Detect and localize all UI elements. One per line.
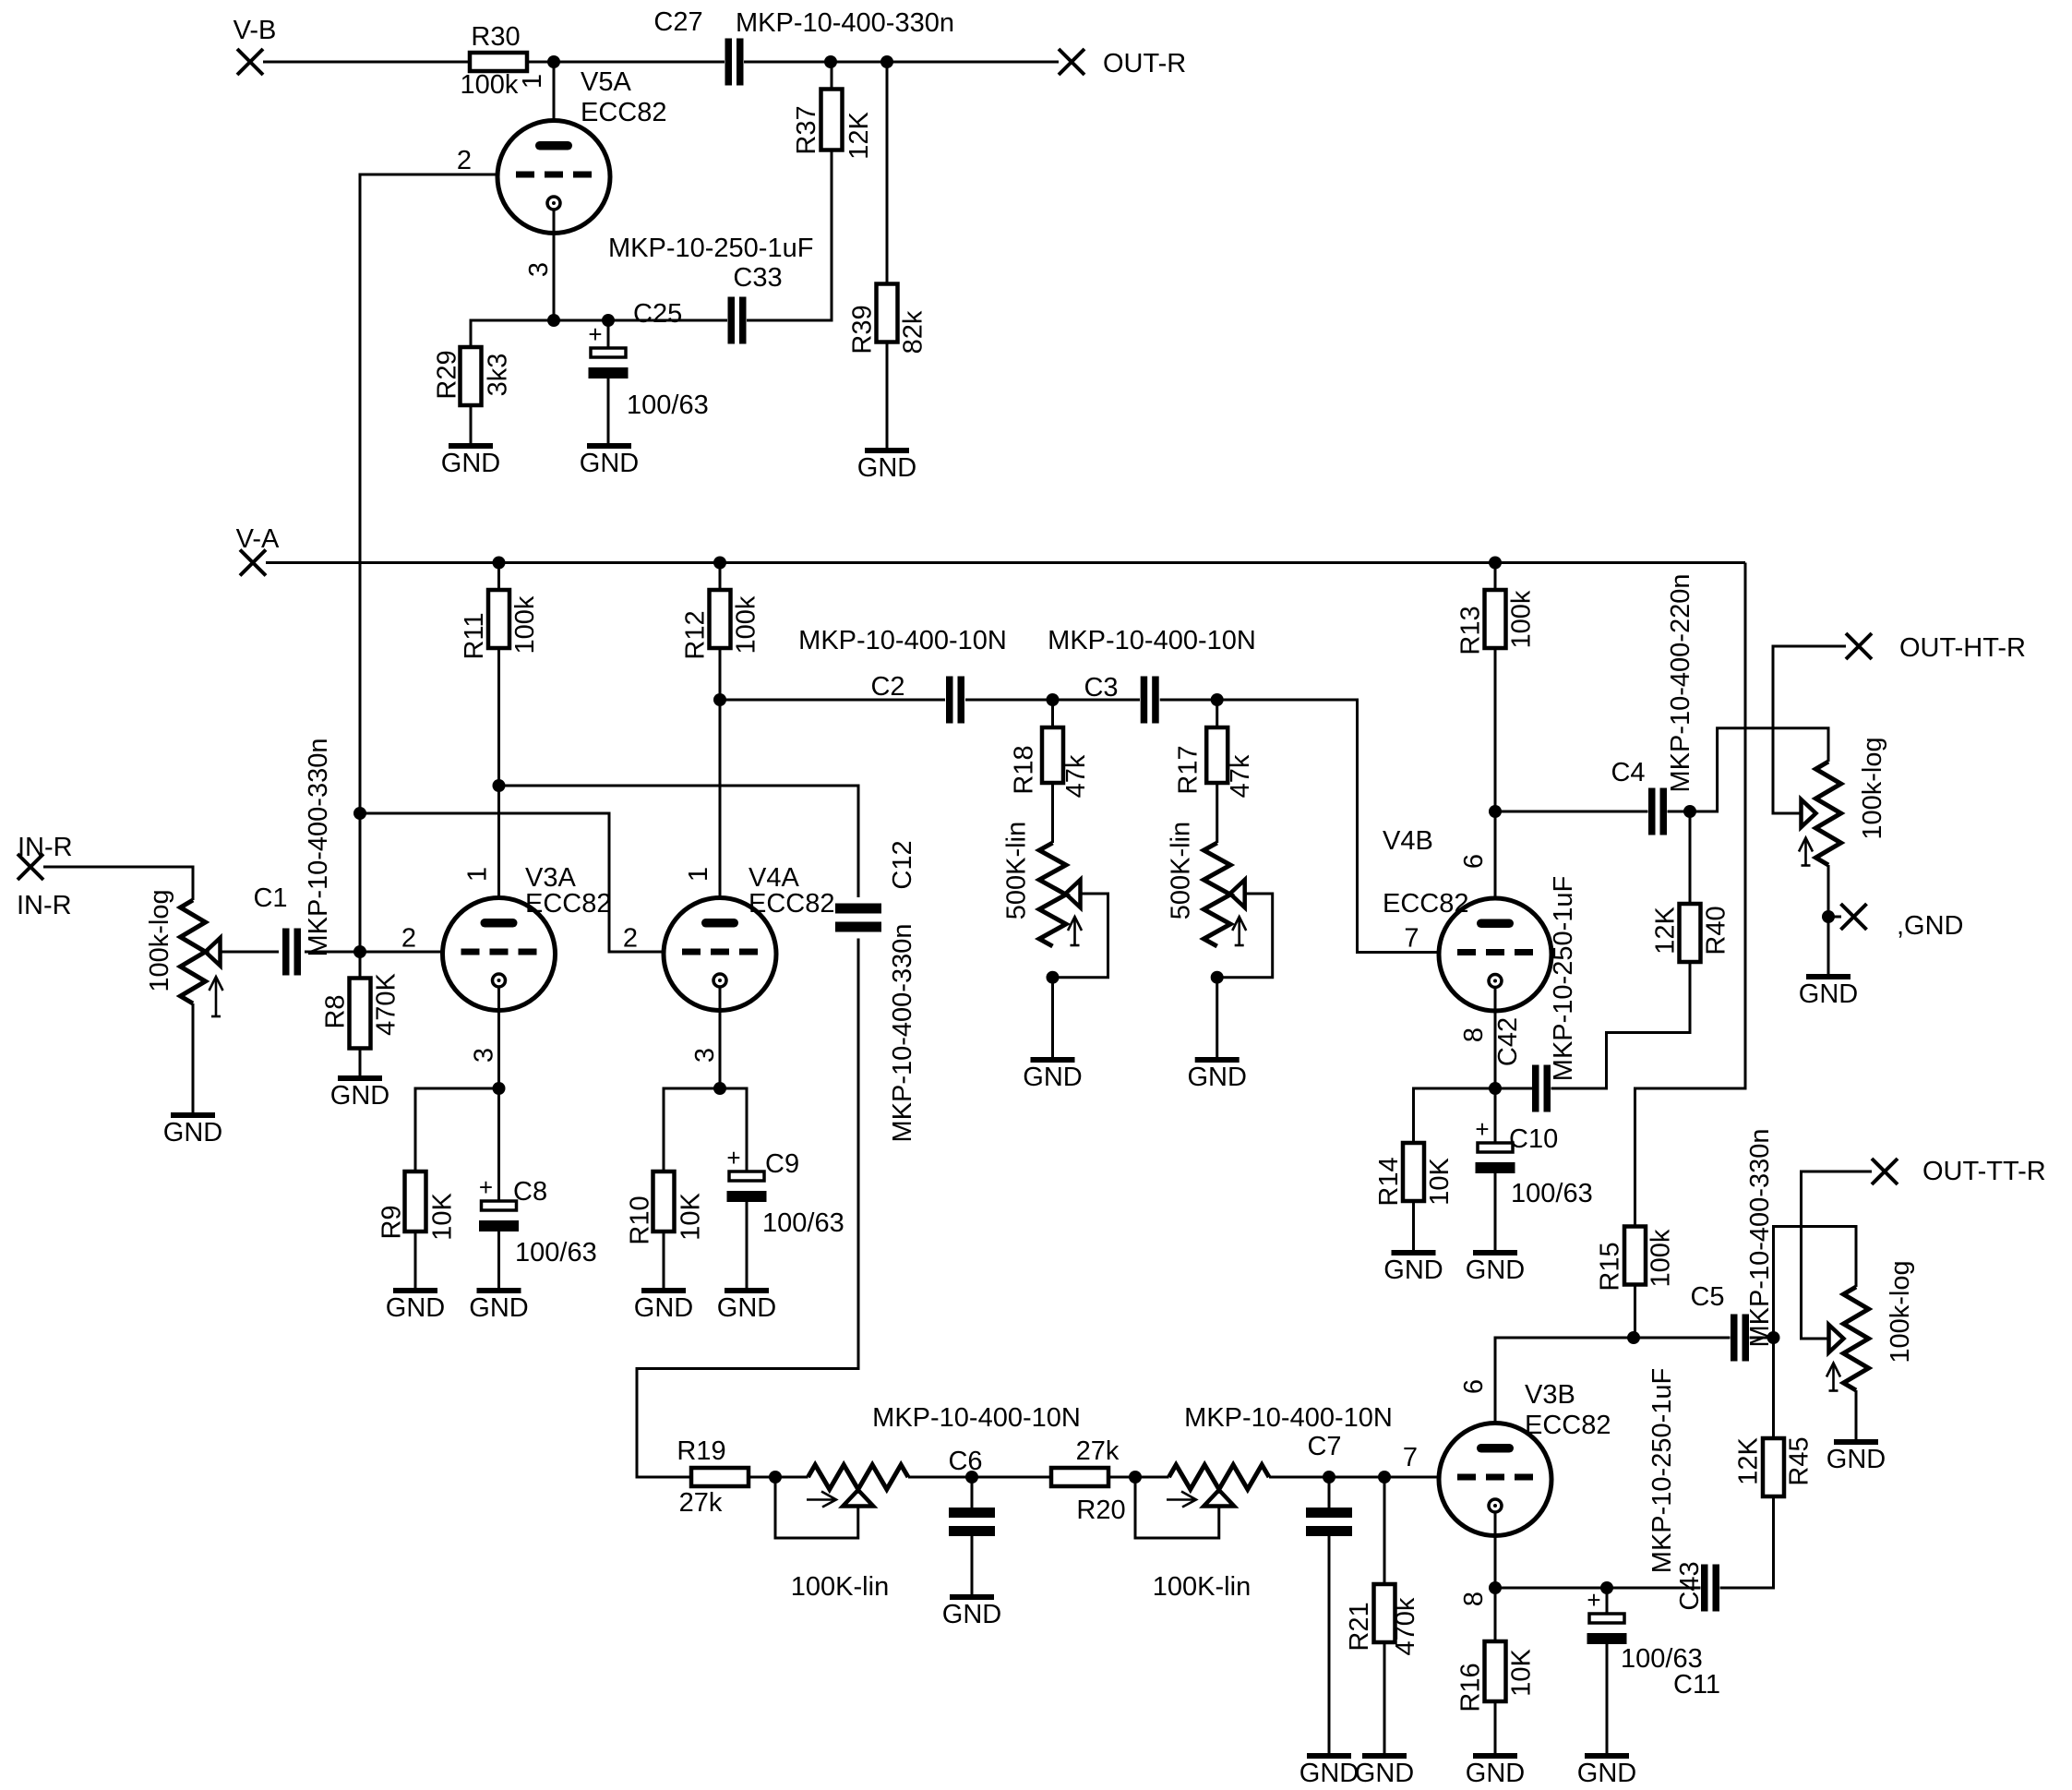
- svg-text:R18: R18: [1010, 745, 1039, 794]
- svg-text:R10: R10: [626, 1195, 655, 1244]
- wire R13 to V4B anode: [1494, 648, 1497, 919]
- node C7 top: [1323, 1471, 1335, 1484]
- resistor R14 10K: [1403, 1143, 1424, 1201]
- svg-text:GND: GND: [580, 449, 639, 478]
- wire R14 to GND: [1412, 1201, 1415, 1253]
- svg-text:ECC82: ECC82: [1383, 889, 1469, 919]
- svg-text:2: 2: [401, 924, 416, 954]
- svg-text:ECC82: ECC82: [749, 889, 835, 919]
- terminal OUT-TT-R: [1872, 1159, 1898, 1184]
- svg-text:MKP-10-400-10N: MKP-10-400-10N: [1048, 626, 1256, 655]
- node grid branch: [353, 807, 366, 820]
- svg-text:R8: R8: [321, 994, 351, 1028]
- resistor R20 27k: [1051, 1468, 1108, 1486]
- wire R40 to C42: [1551, 962, 1691, 1088]
- svg-text:R13: R13: [1456, 606, 1486, 655]
- svg-text:10K: 10K: [1507, 1649, 1537, 1697]
- capacitor C3 MKP-10-400-10N: [1141, 677, 1148, 724]
- potentiometer 100k-log HT: [1815, 762, 1840, 865]
- node V3A anode: [493, 779, 506, 792]
- wire V4B cathode lead: [1494, 988, 1497, 1089]
- terminal OUT-HT-R: [1846, 633, 1872, 659]
- capacitor C7 MKP-10-400-10N: [1328, 1477, 1331, 1512]
- node R12 top: [713, 557, 726, 570]
- svg-text:C11: C11: [1673, 1670, 1720, 1700]
- svg-text:OUT-TT-R: OUT-TT-R: [1922, 1157, 2046, 1186]
- node V5A cathode: [547, 314, 560, 327]
- wire C10 to GND: [1494, 1173, 1497, 1253]
- wire cathode to C25: [554, 319, 608, 322]
- svg-text:+: +: [479, 1173, 493, 1201]
- svg-text:3: 3: [524, 262, 554, 277]
- svg-text:OUT-HT-R: OUT-HT-R: [1899, 633, 2026, 663]
- svg-text:ECC82: ECC82: [1525, 1411, 1611, 1440]
- wire C2 to C3: [965, 699, 1140, 702]
- resistor R39 82k: [877, 284, 898, 342]
- node R39 top: [880, 55, 893, 68]
- wire C7 to GND: [1328, 1532, 1331, 1756]
- wire R45 top lead: [1772, 1338, 1775, 1438]
- tube V5A ECC82: [497, 121, 610, 234]
- wire R21 to GND: [1383, 1642, 1386, 1756]
- capacitor C42 MKP-10-250-1uF: [1495, 1087, 1532, 1090]
- svg-text:100k: 100k: [510, 595, 540, 654]
- node R37 top: [824, 55, 837, 68]
- wiper treble pot 2: [1230, 880, 1245, 907]
- svg-text:27k: 27k: [1076, 1436, 1120, 1466]
- svg-text:R15: R15: [1596, 1242, 1625, 1291]
- wire R39 to GND: [886, 342, 889, 451]
- svg-text:MKP-10-400-330n: MKP-10-400-330n: [736, 8, 954, 38]
- node R19 out: [769, 1471, 782, 1484]
- capacitor C4 MKP-10-400-220n: [1648, 788, 1656, 835]
- node R11 top: [493, 557, 506, 570]
- wire C4 to R40 node: [1668, 811, 1691, 813]
- ground R8: [338, 1075, 382, 1081]
- wire V5A cathode lead: [553, 210, 556, 320]
- wire R8 lead: [359, 952, 362, 979]
- svg-text:R29: R29: [433, 350, 462, 399]
- ground C10: [1473, 1250, 1517, 1255]
- svg-text:10K: 10K: [1425, 1158, 1455, 1206]
- svg-text:IN-R: IN-R: [18, 833, 73, 862]
- node V4B cathode: [1489, 1082, 1502, 1095]
- svg-text:100k-log: 100k-log: [1886, 1260, 1915, 1363]
- wire R12 top lead: [719, 563, 722, 591]
- wire volume pot to GND: [192, 1003, 195, 1115]
- ground C6: [950, 1594, 994, 1600]
- resistor R19 27k: [691, 1468, 749, 1486]
- svg-text:MKP-10-250-1uF: MKP-10-250-1uF: [1647, 1368, 1677, 1573]
- wire wiper loop treble: [1053, 894, 1108, 978]
- svg-text:R14: R14: [1374, 1157, 1404, 1206]
- wire V4A cathode lead: [719, 987, 722, 1088]
- svg-text:ECC82: ECC82: [581, 98, 667, 127]
- node R21 top: [1378, 1471, 1391, 1484]
- node anode V5A junction: [547, 55, 560, 68]
- svg-text:6: 6: [1459, 1379, 1489, 1394]
- svg-text:GND: GND: [469, 1293, 528, 1323]
- wire OUT-TT-R to TT pot wiper: [1802, 1171, 1873, 1339]
- wire V4A anode to C2: [720, 699, 945, 702]
- wire R40 top lead: [1689, 811, 1692, 904]
- wire R10 to GND: [663, 1231, 665, 1291]
- wire C5 node to TT pot top: [1774, 1227, 1857, 1339]
- svg-text:3: 3: [690, 1048, 720, 1063]
- svg-text:470K: 470K: [372, 972, 401, 1035]
- svg-text:470k: 470k: [1391, 1597, 1420, 1655]
- resistor R17 47k: [1206, 727, 1228, 783]
- svg-text:C10: C10: [1509, 1124, 1558, 1154]
- svg-text:100/63: 100/63: [1511, 1179, 1593, 1208]
- wire R13 top lead: [1494, 563, 1497, 591]
- svg-text:100k: 100k: [1507, 590, 1537, 648]
- svg-text:V-B: V-B: [234, 16, 277, 45]
- ground R39: [865, 448, 909, 453]
- node C5 out: [1767, 1331, 1780, 1344]
- wire cathode to R14: [1414, 1088, 1496, 1143]
- svg-text:MKP-10-250-1uF: MKP-10-250-1uF: [1549, 876, 1578, 1081]
- svg-text:8: 8: [1459, 1027, 1489, 1042]
- svg-text:GND: GND: [163, 1118, 222, 1147]
- wire V5A pin 1 anode lead: [553, 62, 556, 141]
- svg-text:R37: R37: [792, 105, 821, 154]
- wire cathode to R10: [664, 1088, 720, 1171]
- svg-text:2: 2: [457, 146, 472, 175]
- svg-text:R45: R45: [1785, 1436, 1814, 1485]
- wiper HT pot: [1802, 799, 1816, 827]
- svg-text:12K: 12K: [1651, 907, 1681, 955]
- svg-text:R20: R20: [1076, 1496, 1125, 1525]
- tube V3B ECC82: [1439, 1424, 1551, 1536]
- svg-text:MKP-10-400-330n: MKP-10-400-330n: [1745, 1129, 1775, 1348]
- potentiometer 500K-lin treble 2: [1204, 843, 1230, 946]
- svg-text:7: 7: [1403, 1443, 1418, 1472]
- svg-text:ECC82: ECC82: [525, 889, 612, 919]
- resistor R21 470k: [1374, 1584, 1395, 1642]
- svg-text:GND: GND: [1466, 1255, 1525, 1285]
- svg-text:IN-R: IN-R: [17, 891, 72, 920]
- node V4B anode: [1489, 805, 1502, 818]
- node V3B anode: [1627, 1331, 1640, 1344]
- ground HT pot: [1806, 974, 1850, 979]
- capacitor C6 MKP-10-400-10N: [971, 1477, 974, 1512]
- wire R20 to pot 2: [1108, 1476, 1169, 1479]
- terminal OUT-R: [1059, 49, 1084, 75]
- capacitor C5 MKP-10-250-1uF: [1731, 1315, 1738, 1362]
- svg-text:GND: GND: [1023, 1063, 1082, 1092]
- wire R11 top lead: [497, 563, 500, 591]
- wire cathode to R29: [471, 320, 554, 347]
- svg-text:V-A: V-A: [236, 524, 280, 554]
- svg-text:V4B: V4B: [1383, 826, 1433, 856]
- svg-text:R30: R30: [471, 22, 520, 52]
- wire V-A rail: [266, 561, 1745, 564]
- wire C4 node to HT pot top: [1690, 728, 1828, 811]
- ground R9: [393, 1288, 437, 1293]
- potentiometer 100k-log TT: [1843, 1287, 1868, 1390]
- svg-text:10K: 10K: [428, 1193, 458, 1241]
- svg-text:C3: C3: [1084, 673, 1118, 703]
- svg-text:8: 8: [1459, 1592, 1489, 1606]
- wire grid node to V3A grid: [360, 951, 443, 954]
- wire C8 to GND: [497, 1231, 500, 1291]
- wire IN-R to volume pot: [43, 867, 193, 900]
- terminal IN-R: [18, 854, 43, 880]
- svg-text:MKP-10-400-220n: MKP-10-400-220n: [1666, 574, 1695, 793]
- svg-text:C8: C8: [513, 1177, 547, 1207]
- wire R30 to C27: [527, 61, 725, 64]
- svg-text:47k: 47k: [1061, 754, 1091, 798]
- node C25 top: [602, 314, 615, 327]
- wire C3 to V4B grid: [1160, 700, 1439, 953]
- wire V-B to R30: [263, 61, 470, 64]
- wire V3A cathode lead: [497, 987, 500, 1088]
- svg-text:GND: GND: [330, 1081, 389, 1111]
- wire wiper loop treble 2: [1217, 894, 1273, 978]
- ground R10: [641, 1288, 686, 1293]
- ground C11: [1585, 1753, 1629, 1759]
- svg-text:OUT-R: OUT-R: [1103, 49, 1186, 78]
- wire R18 to pot: [1051, 783, 1054, 843]
- wire R21 lead: [1383, 1477, 1386, 1584]
- svg-text:GND: GND: [942, 1600, 1001, 1629]
- svg-text:R11: R11: [460, 612, 489, 659]
- capacitor C27 MKP-10-400-330n: [725, 39, 733, 86]
- svg-text:500K-lin: 500K-lin: [1002, 822, 1032, 919]
- ground treble pot 2: [1195, 1057, 1240, 1063]
- wire cathode to C8: [497, 1088, 500, 1201]
- tube V4A ECC82: [664, 898, 776, 1011]
- potentiometer 500K-lin treble: [1039, 843, 1066, 946]
- wire C11 lead: [1606, 1588, 1609, 1614]
- svg-text:C7: C7: [1307, 1432, 1341, 1461]
- wire cathode to C9: [720, 1088, 747, 1171]
- svg-text:C5: C5: [1690, 1282, 1724, 1312]
- svg-text:GND: GND: [386, 1293, 445, 1323]
- svg-text:R21: R21: [1345, 1602, 1374, 1651]
- resistor R30 100k: [470, 53, 527, 71]
- svg-text:GND: GND: [1826, 1445, 1886, 1474]
- wire V4B anode to C4: [1495, 811, 1648, 813]
- svg-text:R40: R40: [1702, 906, 1731, 955]
- svg-text:2: 2: [623, 924, 638, 954]
- svg-text:6: 6: [1459, 854, 1489, 869]
- wire anode node to V3B pin 6: [1495, 1338, 1634, 1444]
- ground R21: [1362, 1753, 1407, 1759]
- wiper bass pot 2: [1204, 1490, 1234, 1507]
- wire R37 top lead: [831, 62, 833, 90]
- wiper bass pot: [843, 1490, 873, 1507]
- wire HT pot node to GND: [1827, 917, 1830, 977]
- resistor R18 47k: [1042, 727, 1063, 783]
- wire C1 to grid node: [305, 951, 360, 954]
- resistor R15 100k: [1624, 1227, 1646, 1285]
- potentiometer 100K-lin bass: [808, 1465, 909, 1490]
- wiper TT pot: [1829, 1325, 1844, 1352]
- wire R15 to V3B anode: [1634, 1285, 1636, 1339]
- potentiometer 100k-log volume: [181, 900, 206, 1003]
- svg-text:100/63: 100/63: [762, 1208, 844, 1238]
- svg-text:+: +: [588, 320, 602, 348]
- wire C25 to GND: [607, 378, 610, 446]
- svg-text:100/63: 100/63: [515, 1238, 597, 1267]
- resistor R16 10K: [1485, 1641, 1506, 1701]
- svg-text:GND: GND: [1799, 979, 1858, 1009]
- resistor R12 100k: [710, 590, 731, 648]
- ground TT pot: [1834, 1439, 1878, 1445]
- svg-text:C25: C25: [633, 299, 682, 329]
- ground C8: [477, 1288, 521, 1293]
- svg-text:V3B: V3B: [1525, 1380, 1575, 1410]
- svg-text:MKP-10-400-10N: MKP-10-400-10N: [1184, 1403, 1393, 1433]
- svg-text:+: +: [726, 1144, 740, 1171]
- resistor R13 100k: [1485, 590, 1506, 648]
- svg-text:MKP-10-250-1uF: MKP-10-250-1uF: [608, 234, 813, 263]
- ground C25: [587, 443, 631, 449]
- wire V3B cathode lead: [1494, 1512, 1497, 1588]
- svg-text:GND: GND: [1466, 1759, 1525, 1788]
- wire R18 lead: [1051, 700, 1054, 727]
- svg-text:+: +: [1475, 1115, 1489, 1143]
- svg-text:100k: 100k: [732, 595, 761, 654]
- svg-text:MKP-10-400-330n: MKP-10-400-330n: [304, 739, 333, 957]
- resistor R29 3k3: [461, 347, 482, 405]
- wire bass pot 2 to V3B grid: [1269, 1476, 1439, 1479]
- node R13 top: [1489, 557, 1502, 570]
- svg-text:100k: 100k: [1647, 1229, 1676, 1287]
- capacitor C2 MKP-10-400-10N: [946, 677, 953, 724]
- wire bass pot to C6: [908, 1476, 1051, 1479]
- node C4 out: [1683, 805, 1696, 818]
- wire cathode node to C33: [608, 319, 727, 322]
- svg-text:12K: 12K: [844, 112, 874, 160]
- svg-text:C1: C1: [253, 883, 287, 913]
- svg-text:500K-lin: 500K-lin: [1167, 822, 1196, 919]
- wire wiper loop bass: [775, 1477, 858, 1538]
- wire R29 to GND: [470, 405, 473, 446]
- wire wiper to C1: [221, 951, 280, 954]
- svg-text:10K: 10K: [677, 1193, 706, 1241]
- resistor R10 10K: [653, 1171, 675, 1231]
- svg-text:100K-lin: 100K-lin: [791, 1572, 889, 1602]
- svg-text:3: 3: [470, 1048, 499, 1063]
- ground C9: [725, 1288, 769, 1293]
- svg-text:GND: GND: [1577, 1759, 1636, 1788]
- node V3B cathode: [1489, 1581, 1502, 1594]
- node V4A anode: [713, 693, 726, 706]
- wire R9 to GND: [414, 1231, 417, 1291]
- wire cathode to C10: [1494, 1088, 1497, 1143]
- tube V3A ECC82: [443, 898, 556, 1011]
- resistor R45 12K: [1763, 1438, 1784, 1496]
- capacitor C12 MKP-10-400-330n: [835, 904, 881, 914]
- svg-text:7: 7: [1404, 924, 1419, 954]
- svg-text:GND: GND: [441, 449, 500, 478]
- ground volume pot: [171, 1112, 215, 1118]
- wire treble pot to GND: [1051, 978, 1054, 1060]
- wire R39 top lead: [886, 62, 889, 284]
- wire R8 to GND: [359, 1049, 362, 1079]
- wire C33 to R37: [747, 150, 832, 321]
- svg-text:1: 1: [463, 867, 493, 882]
- wire R17 lead: [1216, 700, 1218, 727]
- ground R14: [1392, 1250, 1436, 1255]
- wire C9 to GND: [746, 1202, 749, 1291]
- svg-text:82k: 82k: [899, 310, 928, 354]
- svg-text:R19: R19: [677, 1436, 725, 1466]
- ground R16: [1473, 1753, 1517, 1759]
- node C6 top: [965, 1471, 978, 1484]
- wire C11 to GND: [1606, 1644, 1609, 1756]
- svg-text:100/63: 100/63: [627, 390, 709, 420]
- svg-text:R9: R9: [377, 1205, 407, 1239]
- wire R16 to GND: [1494, 1701, 1497, 1756]
- ground C7: [1307, 1753, 1351, 1759]
- wire C27 to OUT-R: [744, 61, 1059, 64]
- svg-text:GND: GND: [1299, 1759, 1359, 1788]
- wire OUT-HT-R to HT pot wiper: [1773, 646, 1846, 813]
- svg-text:100k-log: 100k-log: [1858, 737, 1887, 839]
- svg-text:R16: R16: [1456, 1663, 1486, 1712]
- svg-text:C42: C42: [1493, 1017, 1523, 1066]
- svg-text:MKP-10-400-10N: MKP-10-400-10N: [798, 626, 1007, 655]
- resistor R40 12K: [1680, 904, 1701, 962]
- svg-text:R17: R17: [1174, 745, 1204, 794]
- svg-text:C9: C9: [765, 1149, 799, 1179]
- resistor R9 10K: [405, 1171, 426, 1231]
- wire C12 to R19: [637, 939, 858, 1478]
- svg-text:GND: GND: [1187, 1063, 1246, 1092]
- resistor R37 12K: [821, 90, 843, 150]
- node R18 top: [1047, 693, 1060, 706]
- wire cathode to R9: [415, 1088, 499, 1171]
- svg-text:1: 1: [518, 74, 547, 89]
- svg-text:100k-log: 100k-log: [145, 889, 174, 991]
- node R17 top: [1211, 693, 1224, 706]
- capacitor C43 MKP-10-250-1uF: [1701, 1565, 1708, 1612]
- wire TT pot to GND: [1855, 1390, 1858, 1442]
- svg-text:GND: GND: [857, 453, 916, 483]
- wire HT pot to GND node: [1827, 865, 1830, 917]
- terminal GND HT: [1828, 916, 1841, 919]
- wire R19 to pot: [749, 1476, 808, 1479]
- node treble pot bottom: [1047, 971, 1060, 984]
- svg-text:100K-lin: 100K-lin: [1153, 1572, 1251, 1602]
- tube V4B ECC82: [1439, 898, 1551, 1011]
- svg-text:C33: C33: [733, 263, 782, 293]
- wire V-A feed to R15: [1635, 563, 1746, 1227]
- svg-text:V5A: V5A: [581, 67, 631, 97]
- svg-text:R12: R12: [681, 610, 711, 659]
- wire R12 to V4A anode: [719, 648, 722, 919]
- wire wiper loop bass 2: [1135, 1477, 1219, 1538]
- svg-text:GND: GND: [634, 1293, 693, 1323]
- node treble pot 2 bottom: [1211, 971, 1224, 984]
- svg-text:MKP-10-400-10N: MKP-10-400-10N: [872, 1403, 1081, 1433]
- svg-text:C4: C4: [1611, 758, 1645, 787]
- capacitor C25 100/63 electrolytic: [607, 320, 610, 348]
- node grid input: [353, 945, 366, 958]
- svg-text:C43: C43: [1675, 1561, 1705, 1610]
- wire R45 to C43: [1720, 1496, 1774, 1588]
- wire C5 to node: [1750, 1337, 1774, 1339]
- terminal V-A: [240, 550, 266, 576]
- wire V3A anode to C12: [499, 786, 859, 897]
- node C11 top: [1600, 1581, 1613, 1594]
- wire grid branch to V4A grid: [360, 813, 664, 952]
- svg-text:12K: 12K: [1734, 1437, 1764, 1485]
